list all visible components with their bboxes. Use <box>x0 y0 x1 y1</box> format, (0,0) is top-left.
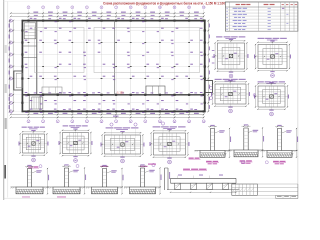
svg-text:11: 11 <box>174 7 176 9</box>
small note bottom left of beam <box>148 164 156 165</box>
footing section S7 <box>124 164 162 194</box>
sheet title red text <box>103 1 225 5</box>
interior pile markers <box>28 42 205 79</box>
pile label annotations <box>25 18 203 113</box>
footing plan F4 <box>150 122 190 164</box>
footing section S2 <box>229 124 265 163</box>
svg-text:8: 8 <box>130 121 131 123</box>
svg-text:1: 1 <box>28 121 29 123</box>
mini column detail <box>165 168 171 190</box>
pile caps on axes <box>21 20 206 113</box>
footing plan F1 <box>19 127 49 169</box>
labels under F3 <box>101 166 148 167</box>
sheet frame left margin line <box>4 0 8 200</box>
outer wall left <box>21 20 23 112</box>
outer wall top <box>22 20 206 22</box>
footing section S4 <box>11 165 50 195</box>
svg-text:3: 3 <box>57 121 58 123</box>
specification table <box>225 2 298 31</box>
detail footing D4 <box>254 81 289 116</box>
right axis bubbles <box>209 87 212 100</box>
svg-text:3: 3 <box>57 7 58 9</box>
label right of F4 <box>189 158 201 160</box>
extra dim notes left of D1 <box>212 50 215 64</box>
top dimension lines <box>10 12 205 18</box>
section mark above S7 <box>152 163 155 166</box>
axis circle right of D3 <box>253 94 256 97</box>
svg-text:7: 7 <box>116 7 117 9</box>
svg-text:11: 11 <box>174 121 176 123</box>
slab pit right outline <box>94 28 200 73</box>
svg-text:4: 4 <box>72 7 73 9</box>
svg-text:6: 6 <box>101 121 102 123</box>
footing section S6 <box>86 165 124 195</box>
svg-text:7: 7 <box>116 121 117 123</box>
footing plan F2 <box>59 125 93 162</box>
sheet number boxes <box>276 195 298 198</box>
pit room bottom center <box>146 86 165 95</box>
detail footing D1 <box>214 36 249 78</box>
svg-text:5: 5 <box>86 121 87 123</box>
frame stamp text left margin <box>4 45 7 179</box>
inner bearing wall horizontal <box>22 94 204 96</box>
right wall bay <box>205 81 213 93</box>
bottom axis bubbles <box>27 120 205 124</box>
detail footing D3 <box>211 79 250 113</box>
detail footing D2 <box>254 38 291 78</box>
left dimension lines <box>9 20 15 113</box>
svg-text:2: 2 <box>43 7 44 9</box>
inner wall vertical mid <box>114 21 116 95</box>
section mark above S4 <box>39 165 42 168</box>
grid axis lines <box>13 9 210 118</box>
svg-text:13: 13 <box>203 121 205 123</box>
outer wall bottom <box>22 110 206 112</box>
sheet border right and bottom <box>4 1 298 198</box>
title block rule lines <box>257 184 298 195</box>
inner wall vertical left <box>36 21 38 95</box>
foundation beam section <box>167 175 240 193</box>
svg-text:12: 12 <box>188 121 190 123</box>
svg-text:10: 10 <box>159 121 161 123</box>
svg-text:12: 12 <box>188 7 190 9</box>
equipment pads left room <box>42 87 62 94</box>
bottom dimension lines <box>10 113 205 119</box>
svg-text:13: 13 <box>203 7 205 9</box>
outer wall right <box>204 20 206 112</box>
section cut bubbles between S labels <box>242 161 269 164</box>
footing section S3 <box>262 125 299 164</box>
svg-text:9: 9 <box>145 7 146 9</box>
foundation beam section title <box>183 169 207 171</box>
svg-text:1: 1 <box>28 7 29 9</box>
red level mark in plan <box>116 91 124 94</box>
svg-text:5: 5 <box>86 7 87 9</box>
section mark above S5 <box>76 165 79 168</box>
svg-text:Ж: Ж <box>10 95 12 97</box>
stair block top left <box>24 23 36 39</box>
svg-text:8: 8 <box>130 7 131 9</box>
revision table <box>232 184 257 195</box>
left entrance porch <box>14 71 23 90</box>
svg-text:-1.150: -1.150 <box>116 91 124 94</box>
svg-text:2: 2 <box>43 121 44 123</box>
footing section S1 <box>195 125 232 164</box>
stair block bottom left <box>32 97 43 109</box>
slab pit left outline <box>35 28 85 73</box>
svg-text:10: 10 <box>159 7 161 9</box>
svg-text:6: 6 <box>101 7 102 9</box>
room walls left strip <box>22 46 40 111</box>
right dimension line <box>207 20 210 113</box>
svg-text:4: 4 <box>72 121 73 123</box>
footing plan F3 <box>101 123 145 163</box>
footing section S5 <box>48 164 87 194</box>
svg-text:9: 9 <box>145 121 146 123</box>
labels under bottom sections <box>22 196 66 197</box>
top axis bubbles <box>27 6 205 9</box>
foundation beam marks <box>34 18 197 110</box>
svg-text:Схема расположения фундаментов: Схема расположения фундаментов и фундаме… <box>103 1 225 5</box>
left axis bubbles <box>9 19 12 113</box>
